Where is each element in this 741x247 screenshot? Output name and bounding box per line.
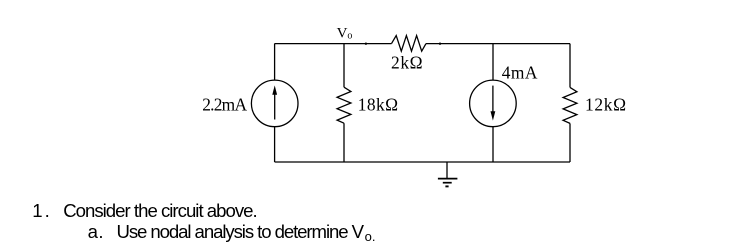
- svg-text:18kΩ: 18kΩ: [358, 94, 398, 114]
- current source I1 arrowhead: [272, 85, 277, 94]
- ground bar 1: [438, 178, 458, 180]
- resistor R3 12k zigzag: [563, 87, 577, 123]
- wire right branch lower: [569, 123, 571, 162]
- wire 4mA branch upper: [492, 44, 494, 81]
- wire middle branch upper: [343, 44, 345, 88]
- svg-text:12kΩ: 12kΩ: [585, 94, 626, 114]
- ground bar 3: [445, 185, 448, 187]
- svg-text:o.: o.: [365, 229, 376, 244]
- wire middle branch lower: [343, 123, 345, 162]
- wire top rail left segment: [275, 43, 392, 45]
- svg-text:2.2mA: 2.2mA: [202, 95, 247, 115]
- current source I1 arrow shaft: [274, 94, 276, 120]
- resistor R2 18k zigzag: [337, 87, 351, 123]
- wire bottom rail: [275, 161, 570, 163]
- ground stem: [446, 162, 448, 178]
- svg-text:4mA: 4mA: [502, 62, 538, 82]
- current source I2 circle: [470, 80, 517, 127]
- wire 4mA branch lower: [492, 127, 494, 162]
- ground bar 2: [443, 182, 452, 184]
- wire left branch upper: [274, 44, 276, 81]
- svg-text:Consider the circuit above.: Consider the circuit above.: [63, 200, 258, 221]
- svg-text:2kΩ: 2kΩ: [391, 52, 423, 72]
- junction dot B: [439, 43, 441, 45]
- wire left branch lower: [274, 127, 276, 162]
- svg-text:Use nodal analysis to determin: Use nodal analysis to determine V: [117, 221, 365, 242]
- svg-text:1.: 1.: [32, 200, 50, 221]
- wire top rail right segment: [426, 43, 570, 45]
- wire right branch upper: [569, 44, 571, 88]
- resistor R1 2k zigzag: [392, 36, 427, 52]
- svg-text:V: V: [337, 26, 348, 42]
- current source I1 circle: [251, 80, 298, 127]
- current source I2 arrowhead: [491, 111, 496, 120]
- svg-text:a.: a.: [88, 221, 104, 242]
- junction dot A: [365, 43, 367, 45]
- current source I2 arrow shaft: [492, 86, 494, 112]
- svg-text:o: o: [347, 30, 352, 41]
